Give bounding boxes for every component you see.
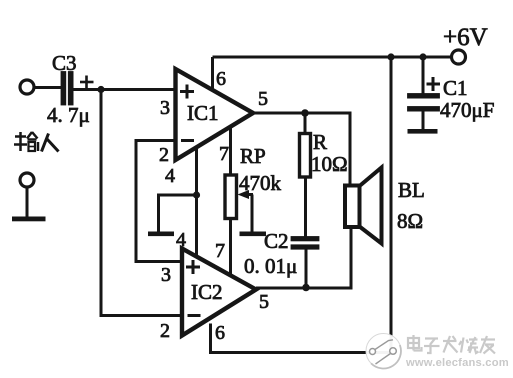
potentiometer RP (225, 175, 237, 219)
wire pin4 to ground (159, 195, 197, 232)
input terminal J1 (20, 80, 34, 94)
node C junction dot rail/C1 (419, 53, 426, 60)
wire C3 to IC1 pin3 (73, 88, 176, 91)
wire R bottom to C2 (304, 177, 307, 237)
wire R top (304, 113, 307, 134)
svg-text:3: 3 (160, 97, 170, 119)
svg-text:www.elecfans.com: www.elecfans.com (405, 357, 509, 369)
svg-text:IC1: IC1 (187, 101, 219, 125)
speaker BL (345, 186, 360, 228)
svg-text:7: 7 (219, 143, 229, 165)
node F junction dot pin4/ground branch (193, 191, 200, 198)
svg-text:10Ω: 10Ω (311, 152, 348, 176)
C3 polarity plus (80, 76, 94, 90)
svg-text:RP: RP (240, 144, 266, 168)
svg-text:4: 4 (165, 165, 175, 187)
capacitor C1 (422, 57, 425, 94)
ground (input) (12, 217, 46, 222)
svg-text:7: 7 (215, 240, 225, 262)
svg-text:5: 5 (258, 88, 268, 110)
IC1 plus input mark (180, 85, 194, 99)
+6V terminal (452, 50, 466, 64)
svg-text:0. 01μ: 0. 01μ (244, 254, 297, 278)
wire IC2 pin6 to bottom rail (211, 324, 392, 353)
svg-text:470k: 470k (239, 171, 282, 195)
node B junction dot rail/speaker branch (387, 53, 394, 60)
IC2 minus input mark (188, 314, 201, 317)
ground (C1) (408, 129, 438, 134)
C1 polarity plus (427, 77, 441, 91)
svg-text:8Ω: 8Ω (397, 209, 423, 233)
svg-text:+6V: +6V (443, 24, 488, 51)
input ground terminal J2 (20, 173, 34, 187)
svg-text:4. 7μ: 4. 7μ (47, 103, 90, 127)
wire IC1 pin5 output (253, 113, 350, 186)
node E junction dot C2/output (302, 284, 310, 292)
svg-text:5: 5 (259, 291, 269, 313)
svg-text:2: 2 (160, 320, 170, 342)
wire pin4 link IC1 to IC2 (195, 148, 198, 258)
wire C2 bottom to output node (305, 249, 308, 288)
svg-text:R: R (313, 130, 327, 154)
wire node A down to IC2 pin2 (101, 90, 182, 316)
IC1 minus input mark (181, 139, 194, 142)
op-amp IC1 (176, 69, 254, 160)
wire IC1 pin6 to +V rail (211, 57, 214, 91)
svg-text:C1: C1 (443, 76, 468, 100)
wire J2 to ground (26, 188, 29, 218)
label input 输入 (drawn strokes) (14, 132, 59, 152)
node D junction dot pin5/R (301, 109, 309, 117)
wire +V top rail (213, 56, 452, 59)
wire IC1 pin7 to RP (229, 127, 232, 175)
svg-text:IC2: IC2 (191, 280, 223, 304)
node A junction dot (97, 86, 104, 93)
wire IC2 pin5 output (256, 228, 351, 289)
svg-text:3: 3 (161, 264, 171, 286)
ground (pin4) (148, 232, 174, 237)
wire IC1 pin2 feedback to IC2 pin3 (136, 141, 182, 262)
watermark logo disc (366, 334, 401, 369)
wire speaker top feed (349, 113, 352, 186)
svg-text:BL: BL (398, 178, 425, 202)
svg-text:C3: C3 (52, 51, 77, 75)
resistor R (300, 134, 311, 178)
capacitor C3 (61, 72, 73, 106)
svg-text:6: 6 (215, 322, 225, 344)
wire RP bottom to IC2 pin7 (229, 219, 232, 277)
svg-text:470μF: 470μF (440, 98, 494, 122)
op-amp IC2 (182, 249, 256, 336)
svg-text:2: 2 (159, 144, 169, 166)
svg-text:6: 6 (216, 68, 226, 90)
capacitor C2 (291, 237, 319, 250)
RP wiper arrow (238, 190, 254, 232)
IC2 plus input mark (186, 260, 200, 274)
svg-text:C2: C2 (264, 229, 289, 253)
wire J1 to C3 (35, 86, 62, 89)
watermark text 电子发烧友 (drawn strokes) (408, 335, 495, 354)
svg-text:4: 4 (176, 229, 186, 251)
wire rail down right side (390, 57, 393, 353)
ground (RP wiper) (240, 232, 267, 237)
